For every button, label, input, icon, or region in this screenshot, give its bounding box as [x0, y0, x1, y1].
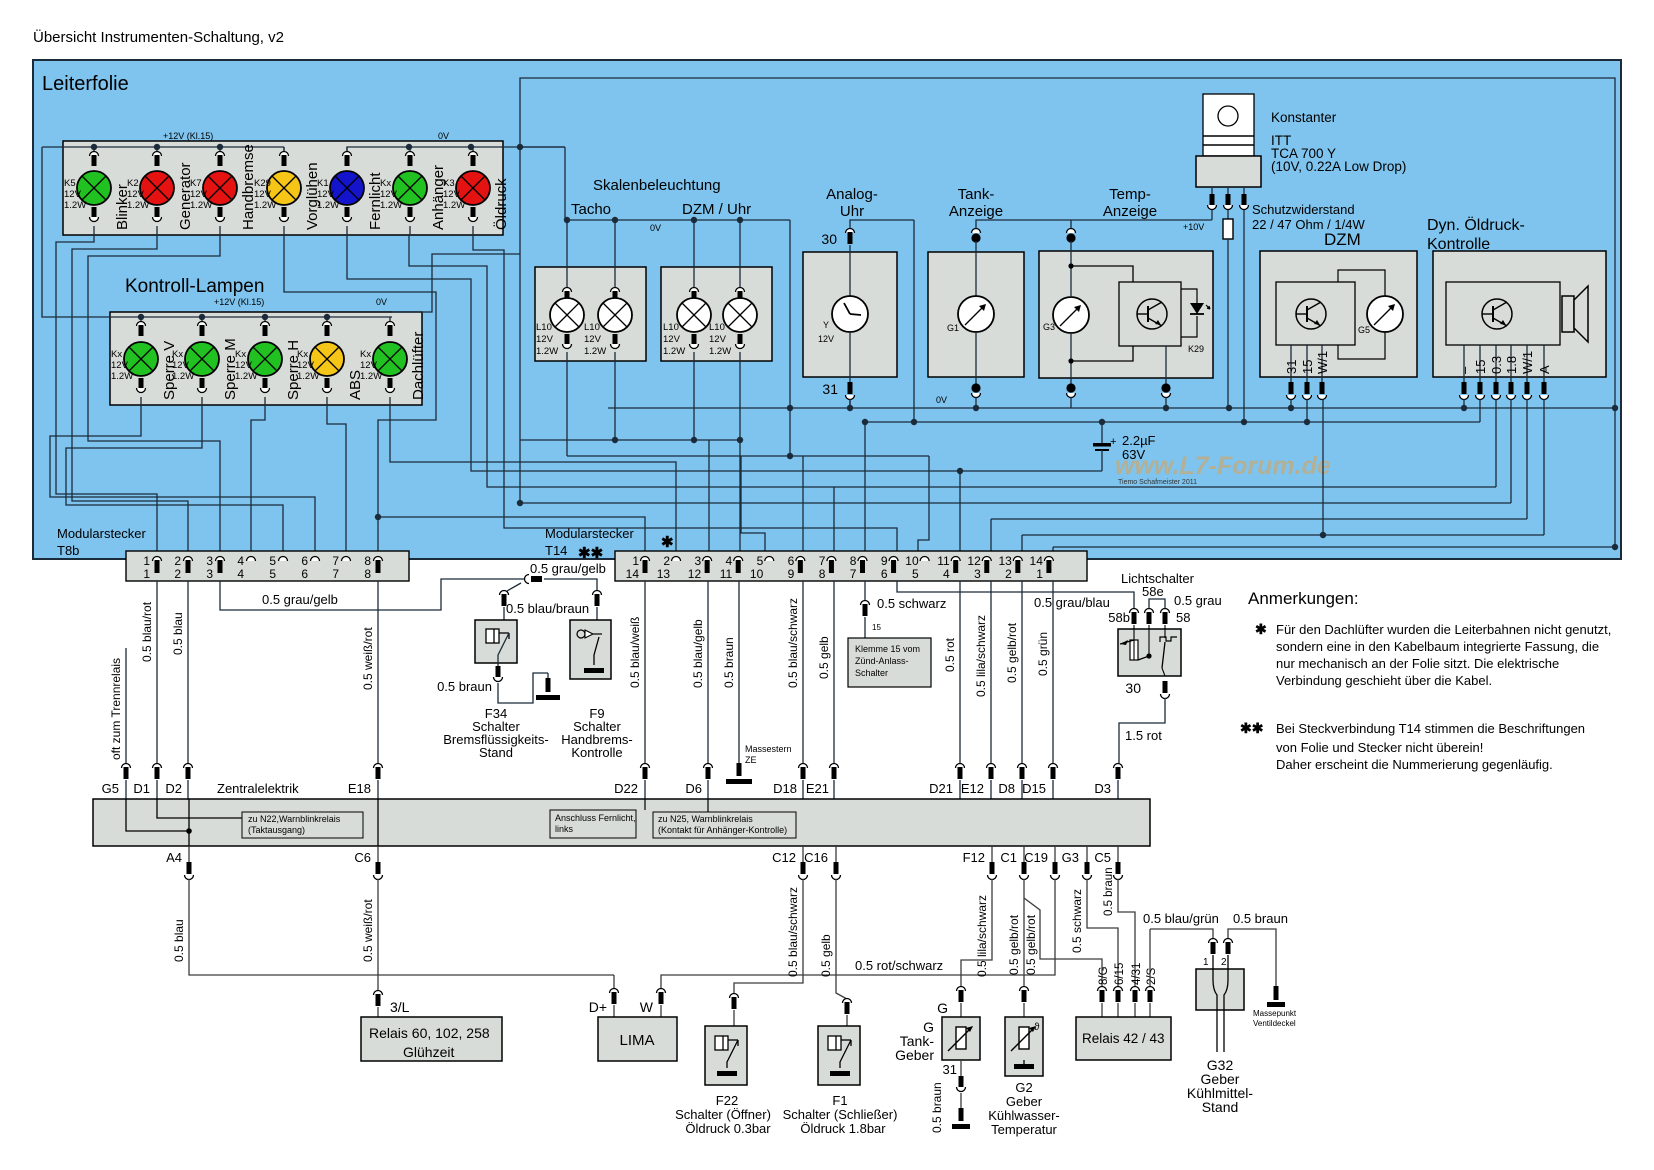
wire 0.5 gruen T14-14 to D15 [1036, 581, 1058, 799]
svg-text:(10V, 0.22A Low Drop): (10V, 0.22A Low Drop) [1271, 159, 1406, 174]
svg-text:7: 7 [850, 567, 857, 581]
svg-text:links: links [555, 824, 574, 834]
svg-text:12V: 12V [360, 360, 378, 371]
svg-text:1.2W: 1.2W [443, 200, 465, 211]
lamp Kx Anhänger [380, 147, 447, 235]
svg-text:2: 2 [174, 567, 181, 581]
capacitor 2.2uF 63V [1093, 419, 1156, 471]
wire 0.5 braun C5 to Relais 4/31 [1103, 846, 1135, 988]
svg-text:0.5 braun: 0.5 braun [1103, 867, 1115, 916]
Tacho lamp box [535, 267, 646, 361]
bus y=535 [1022, 532, 1544, 538]
svg-text:12V: 12V [111, 360, 129, 371]
svg-text:1.2W: 1.2W [254, 200, 276, 211]
svg-text:12V: 12V [380, 189, 398, 200]
control lamp Kx Sperre M [172, 317, 239, 405]
svg-text:30: 30 [1125, 680, 1141, 696]
+10V supply wire from Konstanter [1183, 210, 1212, 232]
svg-text:12: 12 [967, 554, 981, 568]
svg-text:15: 15 [1473, 360, 1488, 374]
svg-text:0.5 blau/weiß: 0.5 blau/weiß [628, 617, 642, 688]
svg-text:1.2W: 1.2W [536, 346, 558, 357]
svg-text:0.5 rot: 0.5 rot [943, 637, 957, 672]
svg-text:nur mechanisch an der Folie si: nur mechanisch an der Folie sitzt. Die e… [1276, 656, 1559, 671]
svg-text:Anzeige: Anzeige [949, 203, 1003, 220]
svg-text:0.5 blau: 0.5 blau [172, 919, 186, 962]
svg-text:Stand: Stand [1202, 1099, 1239, 1115]
scale lamp L10 [584, 220, 632, 361]
svg-text:30: 30 [821, 231, 837, 247]
svg-text:DZM / Uhr: DZM / Uhr [682, 201, 751, 218]
svg-text:6: 6 [788, 554, 795, 568]
svg-text:0V: 0V [650, 223, 661, 233]
svg-text:K3: K3 [443, 178, 455, 189]
svg-text:0.5 gelb/rot: 0.5 gelb/rot [1005, 622, 1019, 683]
svg-text:Kontroll-Lampen: Kontroll-Lampen [125, 276, 264, 297]
svg-text:Modularstecker: Modularstecker [545, 526, 635, 541]
Zentralelektrik bus bar [93, 781, 1150, 846]
wire 0.5 blau/rot T8b1 to D1 [140, 581, 162, 799]
switch F22 Oeldruck 0.3bar [675, 1026, 771, 1136]
svg-text:0.5 blau/grün: 0.5 blau/grün [1143, 911, 1219, 926]
svg-text:3/L: 3/L [390, 999, 410, 1015]
svg-text:1: 1 [143, 567, 150, 581]
svg-text:Relais 42 / 43: Relais 42 / 43 [1082, 1031, 1165, 1046]
svg-text:0.5 braun: 0.5 braun [930, 1082, 944, 1133]
svg-text:Öldruck 0.3bar: Öldruck 0.3bar [685, 1121, 771, 1136]
svg-text:4: 4 [237, 554, 244, 568]
Kontroll-Lampen box [110, 276, 422, 405]
wire 0.5 blau/gelb T14-3 to D6 [691, 581, 713, 799]
svg-text:Konstanter: Konstanter [1271, 110, 1337, 125]
svg-text:W/1: W/1 [1520, 351, 1535, 374]
svg-text:+12V (Kl.15): +12V (Kl.15) [163, 131, 213, 141]
svg-text:zu N25, Warnblinkrelais: zu N25, Warnblinkrelais [658, 814, 753, 824]
svg-text:F22: F22 [716, 1093, 738, 1108]
watermark [1115, 452, 1331, 486]
wire 0.5 blau T8b2 to D2 [171, 581, 193, 799]
svg-text:1.2W: 1.2W [190, 200, 212, 211]
svg-text:0.5 braun: 0.5 braun [722, 637, 736, 688]
svg-text:12V: 12V [317, 189, 335, 200]
wire 0.5 weiss/rot C6 to relay 3/L [361, 846, 410, 1017]
wire ABS to T8b pin7 [327, 405, 346, 558]
wire 0.5 gelb/rot C1 to G2 [1007, 846, 1029, 1017]
svg-text:7: 7 [819, 554, 826, 568]
svg-text:1.2W: 1.2W [360, 371, 382, 382]
wire Sperre H to T8b pin4 [251, 405, 265, 558]
svg-text:1.8: 1.8 [1504, 356, 1519, 374]
svg-text:E21: E21 [806, 781, 829, 796]
svg-text:D2: D2 [165, 781, 182, 796]
Massepunkt Ventildeckel ground [1253, 986, 1297, 1028]
svg-text:+12V (Kl.15): +12V (Kl.15) [214, 297, 264, 307]
lamp K29 Vorglühen [254, 147, 321, 235]
svg-text:www.L7-Forum.de: www.L7-Forum.de [1115, 452, 1331, 480]
svg-text:Skalenbeleuchtung: Skalenbeleuchtung [593, 177, 721, 194]
wire T14 pin11 feed [959, 471, 961, 558]
svg-text:Stand: Stand [479, 745, 513, 760]
svg-text:0.5 grau/gelb: 0.5 grau/gelb [530, 561, 606, 576]
svg-text:D8: D8 [998, 781, 1015, 796]
svg-text:+10V: +10V [1183, 222, 1204, 232]
svg-text:G5: G5 [1358, 325, 1370, 335]
Schutzwiderstand 22/47 Ohm protective resistor [1223, 202, 1365, 408]
svg-text:(Kontakt für Anhänger-Kontroll: (Kontakt für Anhänger-Kontrolle) [658, 825, 787, 835]
long vertical x=520 [519, 147, 521, 503]
svg-text:Modularstecker: Modularstecker [57, 526, 147, 541]
lamp K3 Öldruck [443, 147, 510, 235]
svg-text:Für den Dachlüfter wurden die: Für den Dachlüfter wurden die Leiterbahn… [1276, 622, 1611, 637]
svg-text:+: + [1110, 436, 1116, 448]
svg-text:1.2W: 1.2W [64, 200, 86, 211]
svg-text:0.5 braun: 0.5 braun [437, 679, 492, 694]
bar top labels [102, 781, 1111, 796]
+12V Kl.15 bus inside foil [865, 419, 1480, 425]
ground at F34 [536, 673, 560, 700]
Analog-Uhr clock Y [803, 186, 914, 408]
DZM pin wires [1291, 399, 1323, 535]
svg-text:1.2W: 1.2W [663, 346, 685, 357]
svg-text:31: 31 [1284, 360, 1299, 374]
Anschluss Fernlicht links box [550, 799, 645, 838]
svg-text:2/S: 2/S [1146, 967, 1158, 985]
svg-text:1.2W: 1.2W [172, 371, 194, 382]
svg-text:C16: C16 [804, 850, 828, 865]
svg-text:0.5 blau/braun: 0.5 blau/braun [506, 601, 589, 616]
svg-text:Übersicht Instrumenten-Schaltu: Übersicht Instrumenten-Schaltung, v2 [33, 28, 284, 46]
wire Sperre M to T8b pin5 [66, 405, 283, 558]
svg-text:0.5 schwarz: 0.5 schwarz [877, 596, 946, 611]
svg-text:Massestern: Massestern [745, 744, 792, 754]
svg-text:0.5 weiß/rot: 0.5 weiß/rot [361, 627, 375, 690]
wire 0.5 blau/weiss T14-1 to D22 [628, 581, 650, 799]
svg-text:6: 6 [881, 567, 888, 581]
svg-text:E18: E18 [348, 781, 371, 796]
wire 0.5 blau/schwarz T14-6 to D18 [786, 581, 808, 799]
wire C1 branch to Relais 8/G [1024, 898, 1102, 988]
scale lamp L10 [709, 220, 757, 361]
svg-text:12: 12 [688, 567, 702, 581]
svg-text:13: 13 [998, 554, 1012, 568]
wire 0.5 grau/blau T14-9 to Lichtschalter 58b [897, 581, 1134, 610]
svg-text:0.5 grün: 0.5 grün [1036, 632, 1050, 676]
svg-text:Kx: Kx [380, 178, 391, 189]
svg-text:sondern eine in den Kabelbaum: sondern eine in den Kabelbaum integriert… [1276, 639, 1599, 654]
svg-text:K7: K7 [190, 178, 202, 189]
switch F1 Oeldruck 1.8bar [783, 1026, 898, 1136]
wire 0.5 schwarz G3 to Relais 6/15 [1070, 846, 1118, 988]
sender G2 Kuehlwasser-Temperatur [988, 1017, 1060, 1137]
control lamp Kx Dachlüfter [360, 317, 427, 405]
title [33, 28, 284, 46]
DZM tachometer box with transistor and gauge G5 [1260, 230, 1417, 400]
svg-text:12V: 12V [709, 334, 727, 345]
svg-text:0.5 blau: 0.5 blau [171, 612, 185, 655]
svg-text:Y: Y [823, 320, 829, 330]
svg-text:C19: C19 [1024, 850, 1048, 865]
svg-text:G1: G1 [947, 323, 959, 333]
Temp-Anzeige gauge G3 with regulator K29 [1039, 186, 1213, 408]
svg-text:3: 3 [206, 554, 213, 568]
svg-text:Kx: Kx [111, 349, 122, 360]
svg-text:A4: A4 [166, 850, 182, 865]
inline connector grau/gelb [525, 561, 606, 590]
wire 0.5 rot T14-11 to D21 [943, 581, 965, 799]
T14 pin5/pin10 unused traces [741, 408, 929, 558]
svg-text:3: 3 [974, 567, 981, 581]
svg-text:✱: ✱ [1255, 621, 1267, 637]
bus y=519 [991, 518, 1527, 520]
wire Tacho lamp1 / bus y456 to T14 pin6 [567, 361, 929, 558]
wire Öldruck lamp to T14 pin9 [473, 235, 897, 558]
svg-text:K1: K1 [317, 178, 329, 189]
wire Anhänger lamp to T14 pin7 [409, 235, 834, 558]
wire 0.5 grau/gelb T8b3 to switches [220, 579, 524, 610]
wire 0.5 blau/schwarz C12 to F22 [730, 846, 808, 1026]
svg-text:0.5 blau/schwarz: 0.5 blau/schwarz [786, 598, 800, 688]
zu N22 Warnblinkrelais box [126, 799, 378, 846]
svg-text:D3: D3 [1094, 781, 1111, 796]
svg-text:1.2W: 1.2W [297, 371, 319, 382]
svg-text:ϑ: ϑ [1034, 1022, 1040, 1033]
Modularstecker T8b [57, 526, 409, 581]
lamp K5 Blinker [64, 147, 131, 235]
svg-text:von Folie und Stecker nicht üb: von Folie und Stecker nicht überein! [1276, 740, 1483, 755]
scale lamps supply rail [520, 147, 790, 223]
wire Generator to T8b pin2 [72, 235, 188, 558]
wire Handbremse to T8b pin3 [88, 235, 220, 558]
svg-text:✱✱: ✱✱ [578, 545, 604, 562]
svg-text:oft zum Trennrelais: oft zum Trennrelais [109, 658, 123, 760]
svg-text:0.5 blau/rot: 0.5 blau/rot [140, 601, 154, 662]
F9 labels [561, 706, 633, 760]
svg-text:13: 13 [657, 567, 671, 581]
svg-text:Bei Steckverbindung T14 stimme: Bei Steckverbindung T14 stimmen die Besc… [1276, 721, 1585, 736]
svg-text:0.5 lila/schwarz: 0.5 lila/schwarz [975, 895, 989, 977]
svg-text:G3: G3 [1043, 322, 1055, 332]
svg-text:8: 8 [850, 554, 857, 568]
svg-text:✱: ✱ [661, 534, 674, 551]
svg-text:1.2W: 1.2W [127, 200, 149, 211]
svg-text:G2: G2 [1015, 1080, 1032, 1095]
Öldruck-Kontrolle pin wires [1464, 399, 1544, 535]
DZM/Uhr lamp box [661, 267, 772, 361]
control lamp Kx Sperre H [235, 317, 302, 405]
wire 0.5 rot/schwarz C19 to LIMA W [640, 846, 1060, 1017]
Relais 60 102 258 Gluehzeit box [361, 1017, 502, 1061]
svg-text:–: – [1457, 366, 1472, 374]
svg-text:L10: L10 [536, 322, 552, 333]
svg-text:Temp-: Temp- [1109, 186, 1151, 203]
svg-text:F12: F12 [963, 850, 985, 865]
indicator lamp box (top row) [63, 141, 503, 235]
svg-text:14: 14 [626, 567, 640, 581]
svg-text:Geber: Geber [895, 1047, 934, 1063]
svg-text:D1: D1 [133, 781, 150, 796]
svg-text:Anschluss Fernlicht,: Anschluss Fernlicht, [555, 813, 636, 823]
svg-text:T8b: T8b [57, 543, 79, 558]
svg-text:L10: L10 [584, 322, 600, 333]
svg-text:7: 7 [332, 554, 339, 568]
svg-text:Massepunkt: Massepunkt [1253, 1009, 1297, 1018]
wire 0.5 schwarz T14-8 to Klemme 15 [848, 581, 946, 687]
svg-text:1: 1 [1203, 957, 1209, 968]
svg-text:58e: 58e [1142, 584, 1164, 599]
svg-text:F1: F1 [832, 1093, 847, 1108]
svg-text:C6: C6 [354, 850, 371, 865]
svg-text:Schalter (Öffner): Schalter (Öffner) [675, 1107, 771, 1122]
scale lamp L10 [663, 220, 711, 361]
svg-text:A: A [1537, 365, 1552, 374]
bar bottom labels [166, 850, 1111, 865]
Lichtschalter light switch [1108, 571, 1221, 799]
svg-text:Tiemo Schafmeister 2011: Tiemo Schafmeister 2011 [1118, 479, 1197, 486]
svg-text:14: 14 [1030, 554, 1044, 568]
lamp K2 Generator [127, 147, 194, 235]
svg-text:58: 58 [1176, 610, 1190, 625]
control lamp Kx ABS [297, 317, 364, 405]
svg-text:0.5 rot/schwarz: 0.5 rot/schwarz [855, 958, 943, 973]
svg-text:Temperatur: Temperatur [991, 1122, 1057, 1137]
svg-text:5: 5 [757, 554, 764, 568]
svg-text:Kx: Kx [297, 349, 308, 360]
svg-text:0.5 lila/schwarz: 0.5 lila/schwarz [974, 615, 988, 697]
svg-text:0.5 gelb/rot: 0.5 gelb/rot [1007, 914, 1021, 975]
svg-text:Kx: Kx [360, 349, 371, 360]
Konstanter input wire [1243, 210, 1245, 422]
svg-text:1.2W: 1.2W [235, 371, 257, 382]
svg-text:0.5 gelb/rot: 0.5 gelb/rot [1024, 914, 1038, 975]
svg-text:D15: D15 [1022, 781, 1046, 796]
svg-text:12V: 12V [254, 189, 272, 200]
svg-text:4: 4 [237, 567, 244, 581]
wire Kontroll 0V branch [390, 254, 520, 317]
svg-text:0.5 gelb: 0.5 gelb [817, 636, 831, 679]
F34 labels [443, 706, 548, 760]
svg-text:3: 3 [206, 567, 213, 581]
svg-text:Relais 60, 102, 258: Relais 60, 102, 258 [369, 1025, 490, 1041]
svg-text:12V: 12V [443, 189, 461, 200]
wire Fernlicht lamp to capacitor bus [347, 235, 1102, 474]
svg-text:D18: D18 [773, 781, 797, 796]
svg-text:12V: 12V [818, 334, 834, 344]
svg-text:K2: K2 [127, 178, 139, 189]
svg-text:12V: 12V [127, 189, 145, 200]
svg-text:2: 2 [663, 554, 670, 568]
svg-text:zu N22,Warnblinkrelais: zu N22,Warnblinkrelais [248, 814, 341, 824]
svg-text:Schalter (Schließer): Schalter (Schließer) [783, 1107, 898, 1122]
wire 0.5 gelb T14-7 to E21 [817, 581, 839, 799]
svg-text:11: 11 [937, 554, 950, 568]
svg-text:Dyn. Öldruck-: Dyn. Öldruck- [1427, 216, 1525, 234]
svg-text:12V: 12V [190, 189, 208, 200]
svg-text:Dachlüfter: Dachlüfter [410, 332, 427, 400]
svg-text:L10: L10 [663, 322, 679, 333]
0V rail of lamp box 1 [347, 131, 565, 151]
svg-text:Anzeige: Anzeige [1103, 203, 1157, 220]
svg-text:7: 7 [332, 567, 339, 581]
svg-text:Zünd-Anlass-: Zünd-Anlass- [855, 656, 909, 666]
svg-text:ZE: ZE [745, 755, 757, 765]
lamp K1 Fernlicht [317, 147, 384, 235]
svg-text:2.2µF: 2.2µF [1122, 433, 1156, 448]
svg-text:0.5 blau/schwarz: 0.5 blau/schwarz [786, 887, 800, 977]
wire 0.5 lila/schwarz T14-12 to E12 [974, 581, 996, 799]
svg-text:12V: 12V [64, 189, 82, 200]
0V return bus along foil top edge [520, 78, 1615, 408]
wire D+ into LIMA [589, 975, 619, 1017]
wire 0.5 lila/schwarz F12 to Tank-Geber [937, 846, 996, 1017]
svg-text:9: 9 [881, 554, 888, 568]
T14 pin12-14 feeds [991, 519, 1053, 558]
svg-text:12V: 12V [663, 334, 681, 345]
svg-text:9: 9 [788, 567, 795, 581]
svg-text:D21: D21 [929, 781, 953, 796]
svg-text:C5: C5 [1094, 850, 1111, 865]
svg-text:K29: K29 [1188, 344, 1204, 354]
wire T14 pin4 feed [739, 440, 741, 558]
wire T14 pin3 feed [708, 440, 710, 558]
svg-text:12V: 12V [536, 334, 554, 345]
svg-text:W: W [640, 999, 654, 1015]
Konstanter voltage regulator ITT TCA 700 Y [1196, 94, 1406, 210]
svg-text:8: 8 [819, 567, 826, 581]
svg-text:5: 5 [269, 567, 276, 581]
svg-text:C1: C1 [1000, 850, 1017, 865]
svg-text:Zentralelektrik: Zentralelektrik [217, 781, 299, 796]
svg-text:Tank-: Tank- [958, 186, 995, 203]
svg-text:Klemme 15 vom: Klemme 15 vom [855, 644, 920, 654]
svg-text:Kx: Kx [172, 349, 183, 360]
wire Vorglühen lamp to T8b pin8 [284, 235, 436, 558]
+12V rail of Kontroll-Lampen [42, 147, 390, 320]
svg-text:6: 6 [301, 554, 308, 568]
svg-text:T14: T14 [545, 543, 567, 558]
svg-text:D22: D22 [614, 781, 638, 796]
svg-text:4/31: 4/31 [1131, 963, 1143, 985]
svg-text:2: 2 [1005, 567, 1012, 581]
wire Dachlüfter to T14 pin2 (unused trace) [390, 405, 676, 558]
svg-text:D6: D6 [685, 781, 702, 796]
svg-text:0.5 grau/gelb: 0.5 grau/gelb [262, 592, 338, 607]
svg-text:11: 11 [720, 567, 733, 581]
svg-text:D+: D+ [589, 999, 607, 1015]
wire 0.5 gelb C16 to F1 [819, 846, 852, 1026]
bus y=548 [1053, 408, 1618, 550]
svg-text:1.2W: 1.2W [380, 200, 402, 211]
svg-text:✱✱: ✱✱ [1240, 720, 1264, 736]
wire oft zum Trennrelais G5 stub [109, 648, 131, 799]
svg-text:1.2W: 1.2W [584, 346, 606, 357]
svg-text:LIMA: LIMA [619, 1032, 654, 1049]
svg-text:Verbindung geschieht über die: Verbindung geschieht über die Kabel. [1276, 673, 1492, 688]
svg-text:5: 5 [912, 567, 919, 581]
svg-text:0V: 0V [936, 395, 947, 405]
svg-text:G5: G5 [102, 781, 119, 796]
switch F9 Handbrems-Kontrolle [570, 591, 611, 680]
svg-text:10: 10 [750, 567, 764, 581]
svg-text:0.5 grau: 0.5 grau [1174, 593, 1222, 608]
svg-text:W/1: W/1 [1315, 351, 1330, 374]
Skalenbeleuchtung labels [571, 177, 751, 233]
svg-text:Glühzeit: Glühzeit [403, 1044, 454, 1060]
bus to Öldruck-Kontrolle pin 0.3 [740, 440, 1496, 487]
wire Sperre V to T8b pin6 [50, 405, 315, 558]
Modularstecker T14 [545, 526, 1087, 581]
svg-text:1.2W: 1.2W [111, 371, 133, 382]
svg-text:8/G: 8/G [1098, 966, 1110, 985]
